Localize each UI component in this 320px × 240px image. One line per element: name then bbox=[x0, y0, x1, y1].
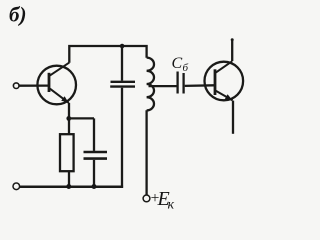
capacitor Cб bbox=[178, 72, 184, 94]
wire: Q1 emitter down through R1 to bottom rail bbox=[68, 103, 70, 187]
svg-text:б: б bbox=[183, 62, 189, 74]
junction node: C2 bottom on rail bbox=[92, 184, 97, 189]
label Cб bbox=[172, 55, 189, 74]
wire: input terminal to Q1 base bbox=[19, 84, 48, 86]
wire: L1 tap to Cб bbox=[149, 85, 177, 87]
wire: Cб to Q2 base bbox=[185, 84, 214, 87]
capacitor C1 (tank) bbox=[110, 46, 135, 188]
terminal +Ek bbox=[143, 195, 150, 202]
transistor Q2 bbox=[205, 61, 244, 100]
capacitor C2 (bypass) bbox=[84, 118, 108, 186]
transistor Q1 bbox=[37, 63, 76, 105]
svg-text:C: C bbox=[172, 55, 183, 72]
label +Eк bbox=[151, 188, 175, 213]
ground terminal (bottom left) bbox=[13, 183, 20, 190]
inductor L1 bbox=[147, 58, 154, 111]
junction node: R1 bottom on rail bbox=[66, 184, 71, 189]
junction node: Q1 emitter / R1 / C2 bbox=[66, 116, 71, 121]
wire: Q2 emitter down bbox=[232, 101, 234, 134]
resistor R1 bbox=[60, 134, 74, 171]
wire: Q2 collector up bbox=[231, 39, 233, 61]
wire: bottom rail bbox=[20, 185, 123, 188]
wire: Q1 collector up, top rail, down to L1 top bbox=[69, 46, 146, 63]
svg-text:к: к bbox=[168, 198, 175, 213]
input terminal bbox=[13, 83, 19, 89]
junction node: top rail / C1 bbox=[120, 44, 125, 49]
wire: junction to C2 top bbox=[69, 117, 94, 119]
wire: L1 bottom to +Ek terminal bbox=[145, 110, 147, 195]
svg-text:б): б) bbox=[9, 3, 26, 27]
